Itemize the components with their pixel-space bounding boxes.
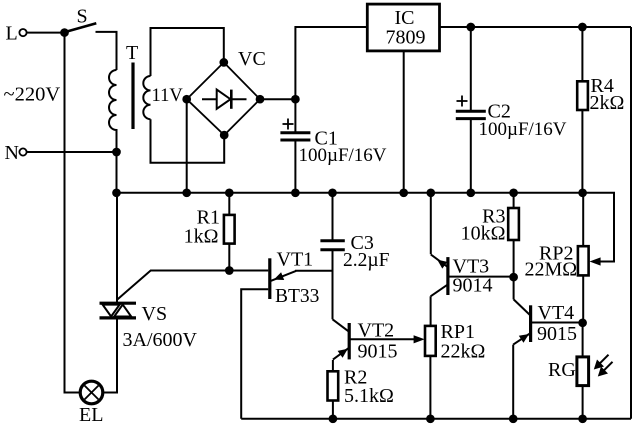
wire unregulated node to IC input	[295, 27, 367, 99]
wire N terminal to junction	[27, 151, 117, 153]
svg-text:S: S	[77, 6, 88, 28]
wire R1 top lead	[228, 193, 230, 215]
potentiometer RP1 22k	[425, 321, 485, 363]
junction VT4 base node	[578, 318, 587, 327]
svg-text:100µF/16V: 100µF/16V	[299, 145, 387, 166]
junction ground bus C2	[466, 188, 475, 197]
bottom +9V rail	[241, 418, 631, 420]
wire VT4 emitter to bottom rail	[512, 345, 514, 419]
svg-text:RG: RG	[548, 359, 576, 381]
transformer T core	[131, 63, 134, 130]
junction N node	[112, 148, 121, 157]
resistor R1 1k	[184, 207, 235, 248]
transistor VT2 9015	[333, 319, 398, 362]
wire +9V right edge	[630, 27, 632, 419]
wire VT4 base to RG node	[531, 322, 583, 324]
resistor R2 5.1k	[328, 367, 394, 408]
wire lamp to triac bottom	[103, 318, 117, 393]
junction ground bus R1	[225, 188, 234, 197]
wire bridge output to unregulated node	[260, 98, 295, 100]
wire VT1 B1 to bottom rail	[241, 289, 268, 419]
wire L down to lamp	[65, 33, 81, 393]
svg-text:L: L	[6, 23, 18, 45]
terminal L	[6, 23, 27, 45]
wire C2 top lead	[470, 27, 472, 111]
wire VT1 base lead	[229, 270, 268, 272]
wire RP1 bottom lead	[429, 356, 431, 419]
transformer T primary winding	[109, 70, 117, 152]
svg-text:VT2: VT2	[358, 320, 395, 342]
triac VS 3A/600V	[100, 303, 198, 351]
junction bridge bottom vertex	[220, 131, 229, 140]
lamp EL	[79, 381, 103, 426]
svg-text:~220V: ~220V	[4, 84, 61, 106]
IC 7809 voltage regulator	[367, 4, 439, 51]
wire ground bus down to triac top	[116, 193, 118, 303]
svg-text:N: N	[5, 142, 19, 164]
svg-text:100µF/16V: 100µF/16V	[479, 119, 567, 140]
photoresistor RG	[548, 357, 589, 386]
transistor VT4 9015	[513, 299, 577, 345]
junction bridge top vertex	[219, 58, 228, 67]
ground bus	[117, 192, 583, 194]
wire R3 bottom lead to VT3 base node	[513, 240, 515, 277]
wire N junction to ground bus	[116, 152, 118, 193]
wire gate node to triac gate	[117, 271, 229, 300]
junction bottom rail RG	[578, 414, 587, 423]
junction VT3 base node	[509, 273, 518, 282]
junction C2 top	[466, 23, 475, 32]
bridge rectifier VC diamond	[187, 48, 266, 135]
svg-text:1kΩ: 1kΩ	[184, 226, 219, 248]
svg-text:7809: 7809	[386, 27, 426, 49]
wire RP1 top to VT3 collector	[430, 296, 432, 326]
transistor VT3 9014	[431, 255, 493, 297]
junction bridge left vertex	[182, 95, 191, 104]
junction L node	[60, 28, 69, 37]
junction bottom rail RP1	[426, 414, 435, 423]
junction bottom rail VT4	[509, 414, 518, 423]
transformer T secondary winding	[143, 76, 150, 119]
wire secondary bottom to bridge bottom vertex	[151, 119, 225, 163]
wire VT1 emitter to C3 column	[295, 270, 333, 272]
wire VT3 emitter to ground bus	[430, 193, 432, 254]
svg-text:BT33: BT33	[275, 286, 319, 307]
wire R1 bottom lead	[228, 244, 230, 271]
svg-text:T: T	[126, 42, 138, 64]
wire R2 top lead	[332, 360, 334, 371]
wire RG bottom lead	[582, 386, 584, 419]
svg-text:3A/600V: 3A/600V	[123, 329, 198, 351]
wire secondary top to bridge top vertex	[151, 28, 224, 76]
junction ground bus IC	[399, 188, 408, 197]
capacitor C1	[280, 119, 386, 167]
svg-text:VS: VS	[142, 303, 168, 325]
junction ground bus VT3 emitter	[426, 188, 435, 197]
wire C3 bottom lead to VT2 collector	[332, 250, 334, 320]
capacitor C2	[456, 96, 567, 141]
wire node to VT4 collector	[513, 277, 515, 299]
transistor VT1 BT33	[270, 249, 320, 308]
wire VT2 base to RP1 wiper arrow	[349, 335, 424, 343]
wire RG top lead	[582, 323, 584, 357]
terminal N	[5, 142, 27, 164]
junction unregulated node	[291, 95, 300, 104]
potentiometer RP2 22M	[525, 243, 589, 281]
wire C1 bottom lead	[294, 140, 296, 193]
junction triac gate node	[225, 266, 234, 275]
svg-text:5.1kΩ: 5.1kΩ	[344, 385, 394, 407]
wire RP2 top lead	[582, 193, 584, 246]
junction ground bus C1	[291, 188, 300, 197]
resistor R4 2k	[577, 75, 624, 114]
svg-text:VT1: VT1	[277, 249, 314, 271]
svg-text:VC: VC	[238, 48, 266, 70]
svg-text:11V: 11V	[152, 86, 184, 106]
wire RP2 wiper from ground bus	[583, 193, 614, 266]
svg-text:10kΩ: 10kΩ	[461, 223, 506, 245]
resistor R3 10k	[461, 206, 519, 245]
svg-text:22kΩ: 22kΩ	[441, 341, 486, 363]
svg-text:9014: 9014	[453, 275, 493, 297]
svg-text:2kΩ: 2kΩ	[590, 92, 625, 114]
wire C2 bottom lead	[470, 119, 472, 193]
wire R4 top lead	[581, 27, 583, 81]
junction ground bus bridge column	[182, 188, 191, 197]
switch S	[67, 6, 97, 32]
wire switch to transformer primary	[96, 32, 117, 70]
svg-text:2.2µF: 2.2µF	[343, 250, 390, 271]
wire R3 top lead	[513, 193, 515, 208]
light arrows onto RG	[594, 355, 613, 377]
junction bottom rail R2	[329, 414, 338, 423]
junction ground bus R4 RP2	[578, 188, 587, 197]
junction ground bus C3	[328, 188, 337, 197]
junction R4 top	[578, 23, 587, 32]
wire R4 bottom lead	[581, 110, 583, 193]
wire VT3 base to node	[448, 276, 514, 278]
wire IC ground lead to ground bus	[403, 51, 405, 193]
junction bridge right vertex	[256, 95, 265, 104]
wire IC output to right edge	[440, 26, 632, 28]
svg-text:22MΩ: 22MΩ	[525, 259, 578, 281]
wire L terminal to junction	[27, 32, 65, 34]
capacitor C3 2.2uF	[320, 232, 389, 271]
bridge diode symbol	[202, 90, 247, 109]
svg-text:9015: 9015	[537, 323, 577, 345]
wire C3 top lead	[332, 193, 334, 241]
wire C1 top lead	[294, 99, 296, 133]
svg-text:VT4: VT4	[538, 302, 575, 324]
wire R2 bottom lead	[332, 401, 334, 419]
junction ground bus R3	[509, 188, 518, 197]
svg-text:EL: EL	[79, 404, 103, 426]
wire bridge left vertex to ground bus	[186, 99, 188, 193]
junction ground bus N column	[112, 188, 121, 197]
svg-text:9015: 9015	[358, 341, 398, 363]
wire RP2 bottom lead	[582, 275, 584, 322]
